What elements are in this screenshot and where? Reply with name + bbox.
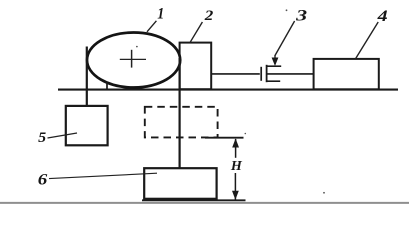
leader 4 (356, 22, 379, 59)
clutch 3 left bar (260, 67, 262, 81)
leader 6 (49, 173, 157, 178)
shaft box2 to clutch (211, 73, 260, 75)
svg-text:1: 1 (157, 6, 164, 23)
dimension extension line (205, 137, 244, 139)
speckle dot above cross (136, 46, 138, 48)
dimension line H (235, 139, 237, 158)
load box 6 (144, 168, 216, 199)
right rope (179, 58, 181, 169)
svg-text:5: 5 (38, 130, 47, 146)
ground line under box 6 (142, 199, 246, 201)
svg-text:3: 3 (295, 8, 307, 25)
counterweight box 5 (66, 106, 108, 145)
svg-text:H: H (230, 158, 243, 173)
dimension arrow down (232, 191, 239, 200)
speckle near dimension (245, 133, 247, 135)
clutch 3 spine (266, 65, 268, 82)
box 2 (drive housing) (180, 43, 212, 90)
leader 3 diagonal (275, 21, 295, 56)
pulley U1 ellipse (87, 33, 180, 88)
leader 5 (48, 133, 78, 138)
dashed box (upper load position) (145, 107, 218, 138)
speckle near 3 (286, 9, 288, 11)
motor box 4 (314, 59, 379, 89)
leader 2 (190, 22, 202, 42)
datum line (table) (58, 89, 398, 91)
dimension line H lower segment (234, 173, 236, 200)
pulley axis cross horizontal (120, 58, 146, 60)
pulley axis cross vertical (131, 50, 133, 68)
left rope (86, 47, 88, 107)
clutch 3 top flange (267, 65, 282, 67)
leader 3 arrowhead (272, 58, 279, 67)
shaft clutch to motor (267, 73, 314, 75)
svg-text:6: 6 (38, 171, 48, 188)
support tick under pulley (106, 82, 108, 90)
page fold gray line bottom (0, 202, 409, 204)
leader 3 arrow shaft (274, 55, 276, 60)
clutch 3 bottom flange (267, 80, 281, 82)
speckle right (323, 192, 325, 194)
leader 1 (147, 21, 156, 32)
dimension arrow up (232, 138, 239, 147)
svg-text:2: 2 (204, 8, 214, 24)
